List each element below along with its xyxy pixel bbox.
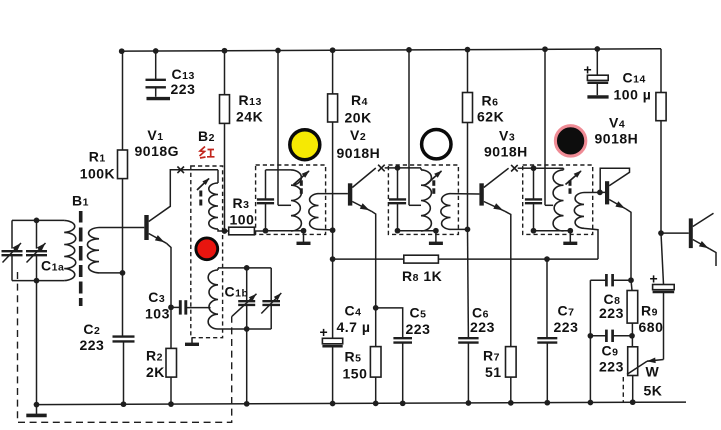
- svg-text:223: 223: [171, 81, 196, 97]
- svg-text:223: 223: [406, 321, 431, 337]
- svg-text:100K: 100K: [80, 165, 115, 181]
- svg-text:100 µ: 100 µ: [614, 87, 652, 103]
- svg-text:150: 150: [343, 366, 368, 382]
- svg-text:223: 223: [599, 305, 624, 321]
- svg-text:223: 223: [79, 337, 104, 353]
- svg-text:62K: 62K: [477, 109, 504, 125]
- svg-text:223: 223: [554, 319, 579, 335]
- svg-text:9018H: 9018H: [484, 144, 528, 160]
- svg-text:20K: 20K: [345, 110, 372, 126]
- svg-text:9018G: 9018G: [135, 143, 180, 159]
- svg-text:223: 223: [470, 319, 495, 335]
- svg-text:103: 103: [145, 306, 170, 322]
- svg-text:5K: 5K: [644, 383, 663, 399]
- svg-text:2K: 2K: [146, 364, 165, 380]
- svg-text:W: W: [646, 364, 660, 380]
- svg-text:24K: 24K: [236, 109, 263, 125]
- svg-text:9018H: 9018H: [595, 131, 639, 147]
- svg-text:51: 51: [485, 364, 502, 380]
- svg-text:9018H: 9018H: [337, 145, 381, 161]
- svg-text:223: 223: [599, 359, 624, 375]
- svg-text:R8 1K: R8 1K: [402, 268, 442, 284]
- svg-text:100: 100: [230, 212, 255, 228]
- svg-text:680: 680: [639, 319, 664, 335]
- svg-text:4.7 µ: 4.7 µ: [337, 319, 371, 335]
